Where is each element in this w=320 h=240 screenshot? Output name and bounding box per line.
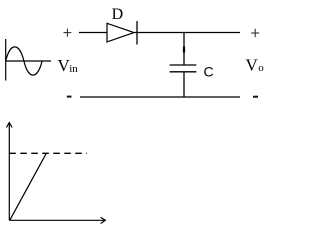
polarity + (output) (251, 29, 259, 38)
polarity - (output) (253, 96, 258, 98)
capacitor C (170, 65, 197, 72)
graph ramp trace (capacitor charging) (10, 153, 46, 220)
wire capacitor branch top (183, 33, 185, 66)
label Vin (58, 56, 79, 75)
svg-text:o: o (258, 62, 264, 74)
wire top-right (diode cathode to output +) (134, 32, 240, 34)
label Vo (246, 56, 265, 75)
wire bottom (return rail) (80, 96, 240, 98)
graph horizontal axis with arrow (9, 217, 105, 223)
svg-text:C: C (204, 63, 214, 79)
polarity - (input) (67, 96, 72, 98)
svg-text:V: V (246, 56, 259, 75)
svg-text:D: D (112, 6, 124, 23)
AC source Vin waveform symbol (6, 39, 51, 81)
graph vertical axis with arrow (6, 123, 12, 221)
junction mark on capacitor branch (183, 47, 185, 53)
graph dashed level line (9, 152, 87, 154)
wire capacitor branch bottom (183, 72, 185, 97)
wire top-left (source + to diode anode) (79, 32, 107, 34)
diode D (107, 21, 137, 45)
svg-text:in: in (69, 63, 78, 75)
polarity + (input) (64, 29, 72, 37)
